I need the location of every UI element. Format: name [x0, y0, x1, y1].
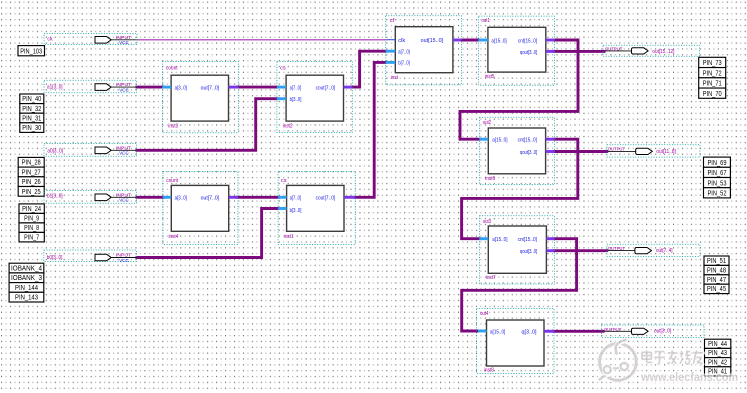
output pin out[11..8]: [607, 145, 700, 157]
svg-text:cnt[15..0]: cnt[15..0]: [518, 38, 538, 44]
svg-text:IOBANK_3: IOBANK_3: [11, 275, 42, 282]
pin label PIN_32: [20, 104, 44, 114]
wire out3 cnt to out4 a: [462, 239, 577, 331]
svg-text:a[3..0]: a[3..0]: [175, 85, 188, 91]
svg-text:PIN_144: PIN_144: [15, 285, 38, 292]
pin label PIN_70: [699, 88, 726, 98]
svg-text:PIN_26: PIN_26: [22, 179, 41, 186]
pin label PIN_69: [704, 157, 731, 167]
pin label PIN_28: [18, 157, 44, 167]
watermark chinese glyphs: [642, 350, 703, 364]
wire cs inst1 cout to cf b: [353, 62, 387, 197]
block out4 inst8: [477, 309, 555, 374]
svg-text:out[7..0]: out[7..0]: [201, 196, 220, 202]
watermark logo circle: [599, 340, 637, 381]
svg-text:b1[3..0]: b1[3..0]: [47, 194, 63, 200]
svg-text:PIN_71: PIN_71: [703, 81, 722, 88]
svg-text:a[3..0]: a[3..0]: [175, 196, 188, 202]
svg-text:cnt[15..0]: cnt[15..0]: [518, 138, 538, 144]
svg-text:PIN_32: PIN_32: [22, 106, 41, 113]
pin label PIN_9: [19, 213, 44, 223]
block cf inst: [386, 16, 462, 85]
watermark url text: [640, 370, 738, 384]
wire cs inst2 cout to cf a: [351, 51, 387, 87]
pin label PIN_40: [20, 94, 44, 104]
pin label PIN_72: [699, 68, 726, 78]
svg-text:PIN_103: PIN_103: [20, 48, 42, 55]
svg-text:a[7..0]: a[7..0]: [398, 49, 410, 55]
svg-text:out[3..0]: out[3..0]: [654, 329, 671, 335]
wire count inst4 out to cs inst1 a: [236, 196, 280, 199]
svg-text:PIN_28: PIN_28: [22, 160, 41, 167]
wire b0 bus to cs inst1 b: [136, 209, 281, 258]
svg-text:PIN_8: PIN_8: [24, 225, 39, 232]
pin label PIN_41: [705, 367, 731, 376]
output pin out[15..12]: [603, 45, 700, 56]
svg-text:PIN_70: PIN_70: [703, 91, 722, 98]
pin label PIN_48: [704, 265, 729, 274]
svg-text:a[7..0]: a[7..0]: [290, 196, 302, 202]
svg-text:inst6: inst6: [485, 176, 495, 182]
svg-text:PIN_44: PIN_44: [708, 341, 727, 348]
svg-text:qout[3..0]: qout[3..0]: [520, 150, 538, 156]
svg-text:PIN_30: PIN_30: [22, 125, 41, 132]
svg-text:b[7..0]: b[7..0]: [398, 61, 410, 67]
svg-text:INPUT: INPUT: [116, 35, 132, 40]
pin label PIN_27: [18, 167, 44, 177]
svg-text:PIN_25: PIN_25: [22, 189, 41, 196]
wire a0 bus to cs inst2 b: [136, 99, 280, 151]
pin label PIN_67: [704, 167, 731, 177]
pin label PIN_47: [704, 275, 729, 284]
input pin b1[3..0]: [44, 191, 137, 204]
svg-text:PIN_43: PIN_43: [708, 350, 727, 357]
svg-text:PIN_27: PIN_27: [22, 169, 41, 176]
svg-text:PIN_52: PIN_52: [708, 191, 727, 198]
svg-text:out4: out4: [480, 311, 488, 317]
block count inst4: [163, 171, 238, 244]
svg-text:out[7..0]: out[7..0]: [201, 85, 220, 91]
block cs inst2: [277, 62, 352, 133]
svg-text:inst5: inst5: [485, 74, 495, 80]
pin label PIN_71: [699, 78, 726, 88]
pin label PIN_42: [705, 358, 731, 367]
block count inst3: [162, 62, 238, 133]
svg-text:count: count: [166, 65, 178, 71]
wire out2 cnt to out3 a: [462, 139, 578, 239]
svg-text:PIN_48: PIN_48: [707, 267, 726, 274]
block out1 inst5: [479, 16, 555, 85]
pin label PIN_45: [704, 284, 729, 293]
svg-text:PIN_31: PIN_31: [22, 115, 41, 122]
svg-text:a[15..0]: a[15..0]: [492, 237, 508, 243]
svg-text:inst2: inst2: [283, 123, 293, 129]
svg-text:b[3..0]: b[3..0]: [290, 97, 302, 103]
wire out3 qout to output out[7..4]: [553, 249, 608, 252]
svg-text:inst4: inst4: [169, 234, 179, 240]
svg-text:PIN_53: PIN_53: [708, 180, 727, 187]
pin label PIN_8: [19, 223, 44, 233]
pin label PIN_143: [9, 292, 44, 302]
svg-text:inst: inst: [391, 75, 399, 81]
svg-text:a[7..0]: a[7..0]: [290, 85, 302, 91]
svg-text:ck: ck: [47, 37, 52, 43]
svg-text:PIN_45: PIN_45: [707, 286, 726, 293]
input pin a1[3..0]: [44, 80, 137, 93]
svg-text:qout[3..0]: qout[3..0]: [520, 50, 538, 56]
svg-text:cf: cf: [390, 18, 395, 24]
svg-text:out[7..4]: out[7..4]: [656, 248, 673, 254]
svg-text:INPUT: INPUT: [116, 145, 132, 150]
wire b1 bus to count inst4: [136, 196, 166, 199]
svg-text:VCC: VCC: [119, 88, 129, 93]
svg-text:cs: cs: [281, 178, 287, 184]
svg-text:VCC: VCC: [119, 198, 129, 203]
svg-text:a0[3..0]: a0[3..0]: [47, 149, 63, 155]
pin label PIN_43: [705, 348, 731, 357]
svg-text:OUTPUT: OUTPUT: [608, 147, 625, 152]
input pin ck: [44, 33, 137, 45]
pin label PIN_7: [19, 232, 44, 242]
pin label PIN_144: [9, 283, 44, 293]
svg-text:inst1: inst1: [284, 234, 294, 240]
svg-text:out2: out2: [483, 120, 491, 126]
svg-text:q[3..0]: q[3..0]: [522, 329, 538, 335]
svg-text:a1[3..0]: a1[3..0]: [47, 84, 63, 90]
svg-text:qout[3..0]: qout[3..0]: [520, 249, 538, 255]
pin label PIN_30: [20, 123, 44, 133]
svg-text:PIN_40: PIN_40: [22, 96, 41, 103]
pin label PIN_103: [18, 46, 45, 56]
svg-text:PIN_9: PIN_9: [24, 216, 39, 223]
wire a1 bus to count inst3: [136, 86, 166, 89]
svg-text:out3: out3: [483, 219, 491, 225]
wire out1 qout to output out[15..12]: [553, 50, 606, 53]
svg-text:VCC: VCC: [119, 258, 129, 263]
svg-text:INPUT: INPUT: [116, 82, 132, 87]
wire out2 qout to output out[11..8]: [553, 150, 608, 153]
output pin out[3..0]: [602, 325, 705, 338]
svg-text:clk: clk: [398, 38, 405, 44]
svg-text:IOBANK_4: IOBANK_4: [11, 266, 42, 273]
svg-text:PIN_73: PIN_73: [703, 60, 722, 67]
pin label IOBANK_3: [9, 273, 44, 283]
pin label PIN_52: [704, 188, 731, 198]
svg-text:out[15..0]: out[15..0]: [421, 38, 444, 44]
pin label PIN_31: [20, 113, 44, 123]
pin label PIN_25: [18, 187, 44, 197]
wire ck clk net: [137, 39, 388, 41]
input pin a0[3..0]: [44, 144, 137, 157]
block out3 inst7: [479, 216, 554, 284]
wire out4 q to output out[3..0]: [553, 330, 605, 333]
svg-text:VCC: VCC: [119, 40, 129, 45]
svg-text:a[15..0]: a[15..0]: [491, 38, 507, 44]
svg-text:PIN_42: PIN_42: [708, 359, 727, 366]
pin label IOBANK_4: [9, 263, 44, 273]
svg-text:PIN_67: PIN_67: [708, 170, 727, 177]
svg-text:INPUT: INPUT: [116, 253, 132, 258]
input pin b0[3..0]: [44, 250, 137, 263]
block cs inst1: [278, 171, 355, 244]
wire cf out to out1 a: [460, 39, 480, 42]
svg-text:out[15..12]: out[15..12]: [652, 49, 674, 55]
svg-text:b[3..0]: b[3..0]: [290, 208, 302, 214]
svg-text:count: count: [166, 178, 178, 184]
pin label PIN_53: [704, 178, 731, 188]
svg-text:cout[7..0]: cout[7..0]: [316, 196, 336, 202]
wire count inst3 out to cs inst2 a: [236, 86, 279, 89]
pin label PIN_44: [705, 339, 731, 348]
wire out1 cnt to out2 a: [460, 40, 578, 139]
pin label PIN_26: [18, 177, 44, 187]
svg-text:out1: out1: [482, 18, 490, 24]
svg-text:cnt[15..0]: cnt[15..0]: [518, 237, 538, 243]
svg-text:cs: cs: [280, 65, 286, 71]
svg-text:cout[7..0]: cout[7..0]: [316, 85, 336, 91]
svg-text:a[15..0]: a[15..0]: [492, 138, 508, 144]
svg-text:a[15..0]: a[15..0]: [490, 329, 506, 335]
svg-text:inst3: inst3: [168, 123, 178, 129]
svg-text:inst8: inst8: [484, 368, 494, 374]
svg-text:b0[3..0]: b0[3..0]: [47, 255, 63, 261]
svg-text:www.elecfans.com: www.elecfans.com: [640, 370, 738, 384]
svg-text:PIN_51: PIN_51: [707, 258, 726, 265]
svg-text:PIN_69: PIN_69: [708, 160, 727, 167]
svg-text:PIN_143: PIN_143: [15, 295, 38, 302]
pin label PIN_24: [19, 204, 44, 214]
svg-text:PIN_47: PIN_47: [707, 277, 726, 284]
svg-text:INPUT: INPUT: [116, 192, 132, 197]
svg-text:inst7: inst7: [486, 275, 496, 281]
svg-text:VCC: VCC: [119, 151, 129, 156]
svg-text:out[11..8]: out[11..8]: [656, 149, 676, 155]
output pin out[7..4]: [607, 244, 700, 256]
svg-text:PIN_72: PIN_72: [703, 70, 722, 77]
svg-text:PIN_24: PIN_24: [22, 206, 41, 213]
pin label PIN_51: [704, 256, 729, 265]
pin label PIN_73: [699, 57, 726, 67]
block out2 inst6: [479, 117, 554, 184]
svg-text:PIN_7: PIN_7: [24, 235, 39, 242]
